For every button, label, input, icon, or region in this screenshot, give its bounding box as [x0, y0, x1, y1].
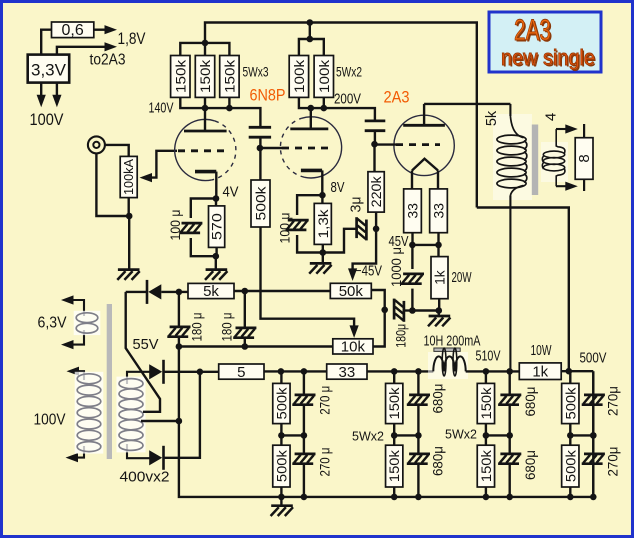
wire 100u bypass loop	[191, 199, 216, 257]
wire 0,6 to 3,3V box	[41, 30, 51, 55]
diode D1	[147, 280, 161, 304]
junction 100k top	[307, 36, 314, 43]
power transformer core	[107, 304, 112, 459]
wire 570 top	[215, 199, 217, 206]
wire diode1 corner	[126, 291, 146, 293]
wire 1,3k bottom	[322, 244, 324, 252]
wire 3u to cathode node	[323, 229, 357, 253]
wire choke to 1k	[466, 370, 520, 372]
label 10H 200mA	[424, 334, 481, 350]
wire 180u b leads	[244, 291, 246, 348]
svg-text:100 μ: 100 μ	[167, 210, 183, 241]
resistor 1,3k	[314, 203, 331, 244]
junction V2 grid node	[257, 145, 264, 152]
500k filter column	[273, 371, 290, 500]
resistor 5 box	[219, 364, 264, 381]
2A3 filament	[412, 159, 438, 189]
junction mid d right	[590, 432, 597, 439]
svg-text:680μ: 680μ	[522, 450, 538, 480]
svg-text:270μ: 270μ	[605, 386, 621, 416]
label 4ohm	[543, 113, 560, 121]
label 140V	[149, 100, 174, 117]
150k filter column 2	[477, 371, 494, 500]
arrow speaker bottom	[556, 182, 578, 191]
svg-text:new single: new single	[501, 45, 595, 70]
triode 2A3 envelope	[394, 115, 454, 175]
svg-text:150k: 150k	[387, 450, 402, 482]
V2 cathode	[301, 170, 322, 195]
270u filter column	[292, 371, 315, 500]
680u filter column 2	[498, 371, 521, 500]
capacitor 100u V1	[179, 223, 202, 233]
svg-text:180 μ: 180 μ	[189, 313, 205, 342]
svg-text:5Wx3: 5Wx3	[243, 64, 269, 80]
label 180u b	[218, 313, 234, 342]
svg-text:3,3V: 3,3V	[31, 61, 67, 80]
svg-text:2A3: 2A3	[384, 89, 410, 107]
svg-text:0,6: 0,6	[62, 22, 84, 39]
junction 500V node	[566, 368, 573, 375]
label 8V	[331, 179, 345, 196]
resistor 33 a	[404, 189, 422, 233]
junction 180u b bottom	[242, 343, 249, 350]
svg-text:4V: 4V	[223, 184, 239, 201]
svg-text:100kA: 100kA	[122, 158, 136, 195]
junction 150k col2 top	[483, 368, 490, 375]
svg-text:5k: 5k	[203, 283, 219, 300]
svg-text:33: 33	[339, 364, 356, 381]
svg-text:50k: 50k	[339, 283, 364, 300]
svg-text:100k: 100k	[317, 60, 332, 93]
svg-text:140V: 140V	[149, 100, 174, 117]
wire 150k tops	[180, 43, 229, 56]
junction 570 bottom	[213, 253, 220, 260]
secondary winding HV	[117, 372, 151, 458]
svg-text:500k: 500k	[563, 450, 578, 482]
svg-text:150k: 150k	[479, 387, 494, 419]
svg-text:500k: 500k	[563, 387, 578, 419]
svg-text:500k: 500k	[254, 186, 269, 220]
wire mid junction c	[486, 434, 510, 436]
label 1,8V	[118, 30, 146, 48]
junction 500k col top	[278, 368, 285, 375]
svg-text:20W: 20W	[452, 270, 472, 286]
wire 100u2 bypass loop	[297, 195, 323, 252]
label -45V	[355, 264, 382, 280]
svg-text:500V: 500V	[580, 351, 607, 367]
label 100V winding	[34, 412, 67, 429]
label 180u c	[393, 324, 409, 348]
2A3 grid	[396, 143, 440, 146]
wire 10k right	[373, 310, 385, 347]
junction 45V b	[435, 242, 442, 249]
label to2A3	[90, 52, 126, 69]
svg-text:100V: 100V	[30, 111, 64, 129]
ground main bus	[271, 497, 293, 516]
junction 4V node	[213, 195, 220, 202]
input jack	[88, 136, 105, 153]
label 20W	[452, 270, 472, 286]
wire 180u a leads	[178, 292, 180, 347]
wire 270u col3 drop	[592, 371, 594, 497]
label 200V	[334, 92, 361, 108]
triode V1 envelope	[175, 119, 236, 180]
wire D2 down leg	[165, 372, 200, 458]
OPT core	[532, 125, 538, 196]
svg-text:8: 8	[576, 154, 593, 162]
2A3 plate	[403, 104, 445, 125]
label 10W	[531, 343, 552, 359]
wire 570 bottom	[215, 247, 217, 256]
svg-text:5: 5	[237, 364, 245, 381]
wire 33a bottom	[411, 233, 413, 245]
svg-text:200V: 200V	[334, 92, 361, 108]
OPT white halo	[493, 114, 568, 200]
junction D2 node	[197, 369, 204, 376]
svg-text:8V: 8V	[331, 179, 345, 196]
svg-text:100V: 100V	[34, 412, 67, 429]
wire jack ground leg	[96, 154, 129, 217]
junction 180u a bottom	[176, 343, 183, 350]
capacitor C2 coupling	[365, 121, 386, 144]
V1 cathode	[195, 172, 216, 199]
capacitor 180u b	[233, 328, 256, 338]
junction tube2 plate	[308, 105, 315, 112]
junction 150k top	[202, 40, 209, 47]
label 6N8P	[250, 87, 286, 105]
svg-text:270 μ: 270 μ	[317, 386, 333, 415]
svg-text:500k: 500k	[274, 387, 289, 419]
label 180u a	[189, 313, 205, 342]
label 5k	[484, 110, 500, 126]
svg-text:270μ: 270μ	[605, 447, 621, 477]
wire 220k to 50k wiper -45V	[348, 229, 376, 281]
wire pot bottom	[127, 198, 130, 269]
wire 100k bottoms 200V line	[299, 97, 375, 121]
wire to ground V2	[322, 253, 324, 263]
svg-text:680μ: 680μ	[522, 387, 538, 417]
wire D1 to 5k	[161, 291, 188, 293]
svg-text:180 μ: 180 μ	[218, 313, 234, 342]
choke white halo	[428, 352, 468, 379]
resistor 50k box	[330, 283, 371, 300]
svg-text:to2A3: to2A3	[90, 52, 126, 69]
arrow down right of 3,3V	[52, 83, 61, 108]
choke 10H core	[434, 348, 460, 351]
svg-text:6N8P: 6N8P	[250, 87, 286, 105]
diode D2	[149, 360, 163, 384]
resistor 33 box	[327, 364, 367, 381]
svg-text:180μ: 180μ	[393, 324, 409, 348]
svg-text:100k: 100k	[292, 60, 307, 93]
capacitor C1 coupling	[249, 127, 271, 148]
wire hum node	[412, 309, 438, 311]
500k filter column 2	[562, 371, 579, 500]
wire 33b bottom	[437, 233, 439, 245]
V2 grid	[282, 147, 328, 150]
wire center tap	[141, 420, 179, 422]
label 45V	[389, 234, 409, 250]
arrow down left of 3,3V	[37, 83, 46, 108]
svg-text:220k: 220k	[369, 176, 384, 207]
svg-text:680μ: 680μ	[429, 384, 445, 414]
wire 1000u top	[411, 245, 413, 269]
svg-text:150k: 150k	[222, 60, 237, 93]
label 270u 2	[317, 448, 333, 477]
resistor 570	[209, 206, 225, 248]
wire 5 to 33	[264, 370, 327, 372]
svg-text:680μ: 680μ	[429, 446, 445, 476]
wire 500k to 10k wiper	[261, 227, 359, 338]
resistor 1k box	[519, 363, 561, 381]
label 5Wx3	[243, 64, 269, 80]
resistor 33 b	[430, 189, 448, 233]
svg-text:4: 4	[543, 113, 560, 121]
svg-text:5k: 5k	[484, 110, 500, 126]
svg-text:33: 33	[432, 203, 447, 219]
svg-text:510V: 510V	[476, 349, 501, 365]
wire 500k top	[259, 148, 261, 180]
label 5Wx2 col1	[352, 430, 384, 444]
resistor 220k	[368, 172, 384, 212]
junction 150k bottom b	[202, 105, 209, 112]
wire mid junction b	[394, 434, 418, 436]
junction 220k bottom	[373, 226, 380, 233]
label 500V	[580, 351, 607, 367]
junction hum pot left	[409, 307, 416, 314]
svg-text:55V: 55V	[133, 336, 159, 353]
wire 150k bottoms 140V line	[180, 97, 260, 127]
wire 5k to 50k	[234, 290, 330, 292]
potentiometer 100kA	[120, 156, 137, 197]
svg-text:100 μ: 100 μ	[277, 213, 293, 244]
svg-text:2A3: 2A3	[514, 14, 551, 47]
label 270u 1	[317, 386, 333, 415]
svg-text:1,3k: 1,3k	[316, 209, 331, 238]
junction hum pot right	[436, 307, 443, 314]
wire 1k bottom	[438, 299, 440, 311]
svg-text:5Wx2: 5Wx2	[352, 430, 384, 444]
wire 100k tops	[299, 23, 324, 56]
svg-text:1k: 1k	[433, 270, 448, 285]
wire to ground V1	[215, 256, 217, 269]
label 3u	[349, 197, 365, 213]
ground V2 cathode	[309, 263, 331, 273]
resistor 150k b	[195, 56, 214, 98]
svg-text:6,3V: 6,3V	[38, 315, 68, 332]
label 100V	[30, 111, 64, 129]
resistor 10k box	[333, 339, 373, 356]
wire B+ right drop to 500V node	[477, 208, 569, 372]
wire 1000u bottom	[411, 289, 413, 311]
junction top wire above 100k	[307, 19, 314, 26]
wire 50k right	[371, 290, 384, 310]
V1 grid	[178, 149, 224, 152]
arrow 1,8V	[94, 25, 117, 34]
label 1000u	[388, 247, 404, 287]
primary winding 100V	[66, 367, 104, 463]
junction 1,3k bottom	[320, 249, 327, 256]
capacitor 180u a	[167, 327, 190, 337]
wire 180u c right	[404, 309, 412, 311]
label 55V	[133, 336, 159, 353]
svg-text:−45V: −45V	[355, 264, 382, 280]
270u filter column 3	[582, 371, 605, 500]
capacitor 1000u	[401, 274, 424, 284]
junction 680u col1 top	[415, 368, 422, 375]
wire 55V tap diagonal	[126, 292, 160, 412]
junction 180u a top	[176, 289, 183, 296]
svg-text:10H 200mA: 10H 200mA	[424, 334, 481, 350]
OPT primary 5k	[497, 104, 527, 372]
wire B+ top	[205, 23, 477, 208]
label 5Wx2 col2	[445, 428, 477, 442]
svg-text:500k: 500k	[274, 450, 289, 482]
junction 180u b top	[242, 288, 249, 295]
label 6,3V	[38, 315, 68, 332]
2A3 grid wire	[375, 143, 397, 145]
wire 220k bottom	[375, 212, 377, 229]
junction 180u c left	[381, 307, 388, 314]
svg-text:5Wx2: 5Wx2	[336, 64, 362, 80]
V2 grid wire	[260, 147, 282, 149]
svg-text:150k: 150k	[479, 450, 494, 482]
wire 1k top	[437, 245, 439, 257]
wire 1,3k top	[321, 195, 323, 203]
svg-text:10k: 10k	[341, 339, 366, 356]
label 2A3 tube	[384, 89, 410, 107]
resistor 0,6	[52, 22, 94, 39]
svg-text:3μ: 3μ	[349, 197, 365, 213]
capacitor 180u c	[394, 299, 404, 322]
wire D2 cathode	[165, 371, 219, 373]
svg-text:150k: 150k	[387, 387, 402, 419]
svg-text:1000 μ: 1000 μ	[388, 247, 404, 287]
label 400vx2	[120, 469, 170, 486]
wire 45V	[412, 244, 438, 246]
junction 45V a	[409, 242, 416, 249]
label 5Wx2 top	[336, 64, 362, 80]
meter 3,3V	[28, 55, 69, 83]
label 100u V2	[277, 213, 293, 244]
V2 plate	[290, 108, 328, 129]
svg-text:33: 33	[406, 203, 421, 219]
speaker 8 ohm	[575, 124, 593, 191]
svg-text:1,8V: 1,8V	[118, 30, 146, 48]
svg-text:1k: 1k	[532, 363, 548, 380]
label 680u 4	[522, 450, 538, 480]
resistor 1k 20W	[431, 257, 448, 299]
OPT secondary	[542, 129, 565, 186]
triode V2 envelope	[280, 117, 341, 178]
junction 150k bottom c	[226, 105, 233, 112]
resistor 100k a	[289, 56, 308, 98]
680u filter column 1	[407, 371, 430, 500]
label 100u V1	[167, 210, 183, 241]
150k filter column 1	[386, 371, 403, 500]
junction center tap	[176, 418, 183, 425]
wire 220k top	[375, 144, 377, 172]
svg-text:10W: 10W	[531, 343, 552, 359]
title box	[489, 12, 601, 72]
resistor 150k c	[220, 56, 239, 98]
junction 2A3 grid node	[371, 141, 378, 148]
svg-text:5Wx2: 5Wx2	[445, 428, 477, 442]
choke 10H 200mA	[433, 348, 465, 376]
capacitor 100u V2	[286, 220, 309, 230]
label 680u 1	[429, 384, 445, 414]
label 270u 4	[605, 447, 621, 477]
ground 45V node	[428, 311, 450, 327]
junction 150k col1 top	[391, 368, 398, 375]
svg-text:270 μ: 270 μ	[317, 448, 333, 477]
svg-text:150k: 150k	[173, 60, 188, 93]
capacitor 3u	[357, 217, 367, 240]
wire mid junction a	[281, 434, 304, 436]
wire 1k to 500V	[561, 370, 593, 372]
junction pot bottom	[126, 213, 133, 220]
wire jack to pot top	[105, 145, 129, 157]
svg-text:400vx2: 400vx2	[120, 469, 170, 486]
svg-text:150k: 150k	[198, 60, 213, 93]
wire mid junction d	[570, 434, 593, 436]
wire 2A3 plate to OPT	[424, 103, 510, 105]
V1 plate	[184, 108, 227, 131]
resistor 150k a	[171, 56, 190, 98]
junction 270u col top	[301, 368, 308, 375]
label 680u 3	[522, 387, 538, 417]
ground input	[117, 270, 139, 280]
label 270u 3	[605, 386, 621, 416]
svg-text:570: 570	[210, 213, 225, 240]
resistor 500k grid	[251, 180, 270, 227]
junction 8V node	[319, 192, 326, 199]
wire to2A3 arrow	[57, 42, 117, 54]
wire 55V row	[179, 345, 333, 347]
label 510V	[476, 349, 501, 365]
ground V1 cathode	[205, 270, 227, 280]
label 680u 2	[429, 446, 445, 476]
diode D3	[149, 446, 163, 470]
resistor 5k box	[188, 283, 234, 300]
wire 33 to choke	[367, 370, 433, 372]
resistor 100k b	[314, 56, 333, 98]
junction 100k bottom b	[321, 105, 328, 112]
wire ground drop column	[179, 347, 593, 497]
arrow speaker top	[556, 124, 578, 133]
wire grid1 to pot wiper	[140, 151, 178, 182]
heater winding 6,3V	[61, 295, 100, 349]
junction 680u col2 top	[506, 368, 513, 375]
label 4V	[223, 184, 239, 201]
